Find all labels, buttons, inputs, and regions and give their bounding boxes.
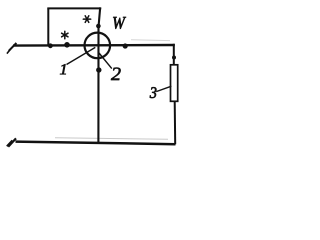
leader line for label 3 xyxy=(156,86,171,91)
terminal left input xyxy=(7,43,17,54)
node: current coil left terminal dot xyxy=(64,42,70,48)
wire right vertical lower segment xyxy=(174,101,177,144)
node: voltage coil terminal dot below meter xyxy=(96,67,101,72)
label 3 xyxy=(150,87,157,98)
node: voltage coil terminal dot above meter xyxy=(96,24,101,29)
polarity mark asterisk (current coil) xyxy=(62,31,68,38)
wattmeter W (meter circle) xyxy=(85,33,111,59)
node: current coil right terminal dot xyxy=(123,43,128,48)
leader line for label 2 (voltage coil) xyxy=(99,53,112,69)
wire right vertical upper segment xyxy=(173,44,175,66)
wire voltage branch vertical (loop corner down through meter to bottom wire) xyxy=(98,7,100,143)
label W xyxy=(113,17,126,29)
wire voltage-loop left vertical xyxy=(47,8,49,45)
terminal bottom-left input xyxy=(7,138,16,146)
junction node: voltage loop tap on main wire xyxy=(48,43,53,48)
wire voltage-loop top horizontal xyxy=(47,7,101,9)
wire main horizontal (top line L1) xyxy=(13,44,175,47)
label 1 xyxy=(60,64,66,74)
polarity mark asterisk (voltage coil) xyxy=(83,16,90,23)
node dot above resistor xyxy=(172,56,176,60)
label 2 xyxy=(111,68,121,80)
resistor 3 xyxy=(171,65,178,102)
leader line for label 1 (current coil) xyxy=(67,47,96,64)
wire bottom horizontal (return line L2) xyxy=(16,142,176,145)
